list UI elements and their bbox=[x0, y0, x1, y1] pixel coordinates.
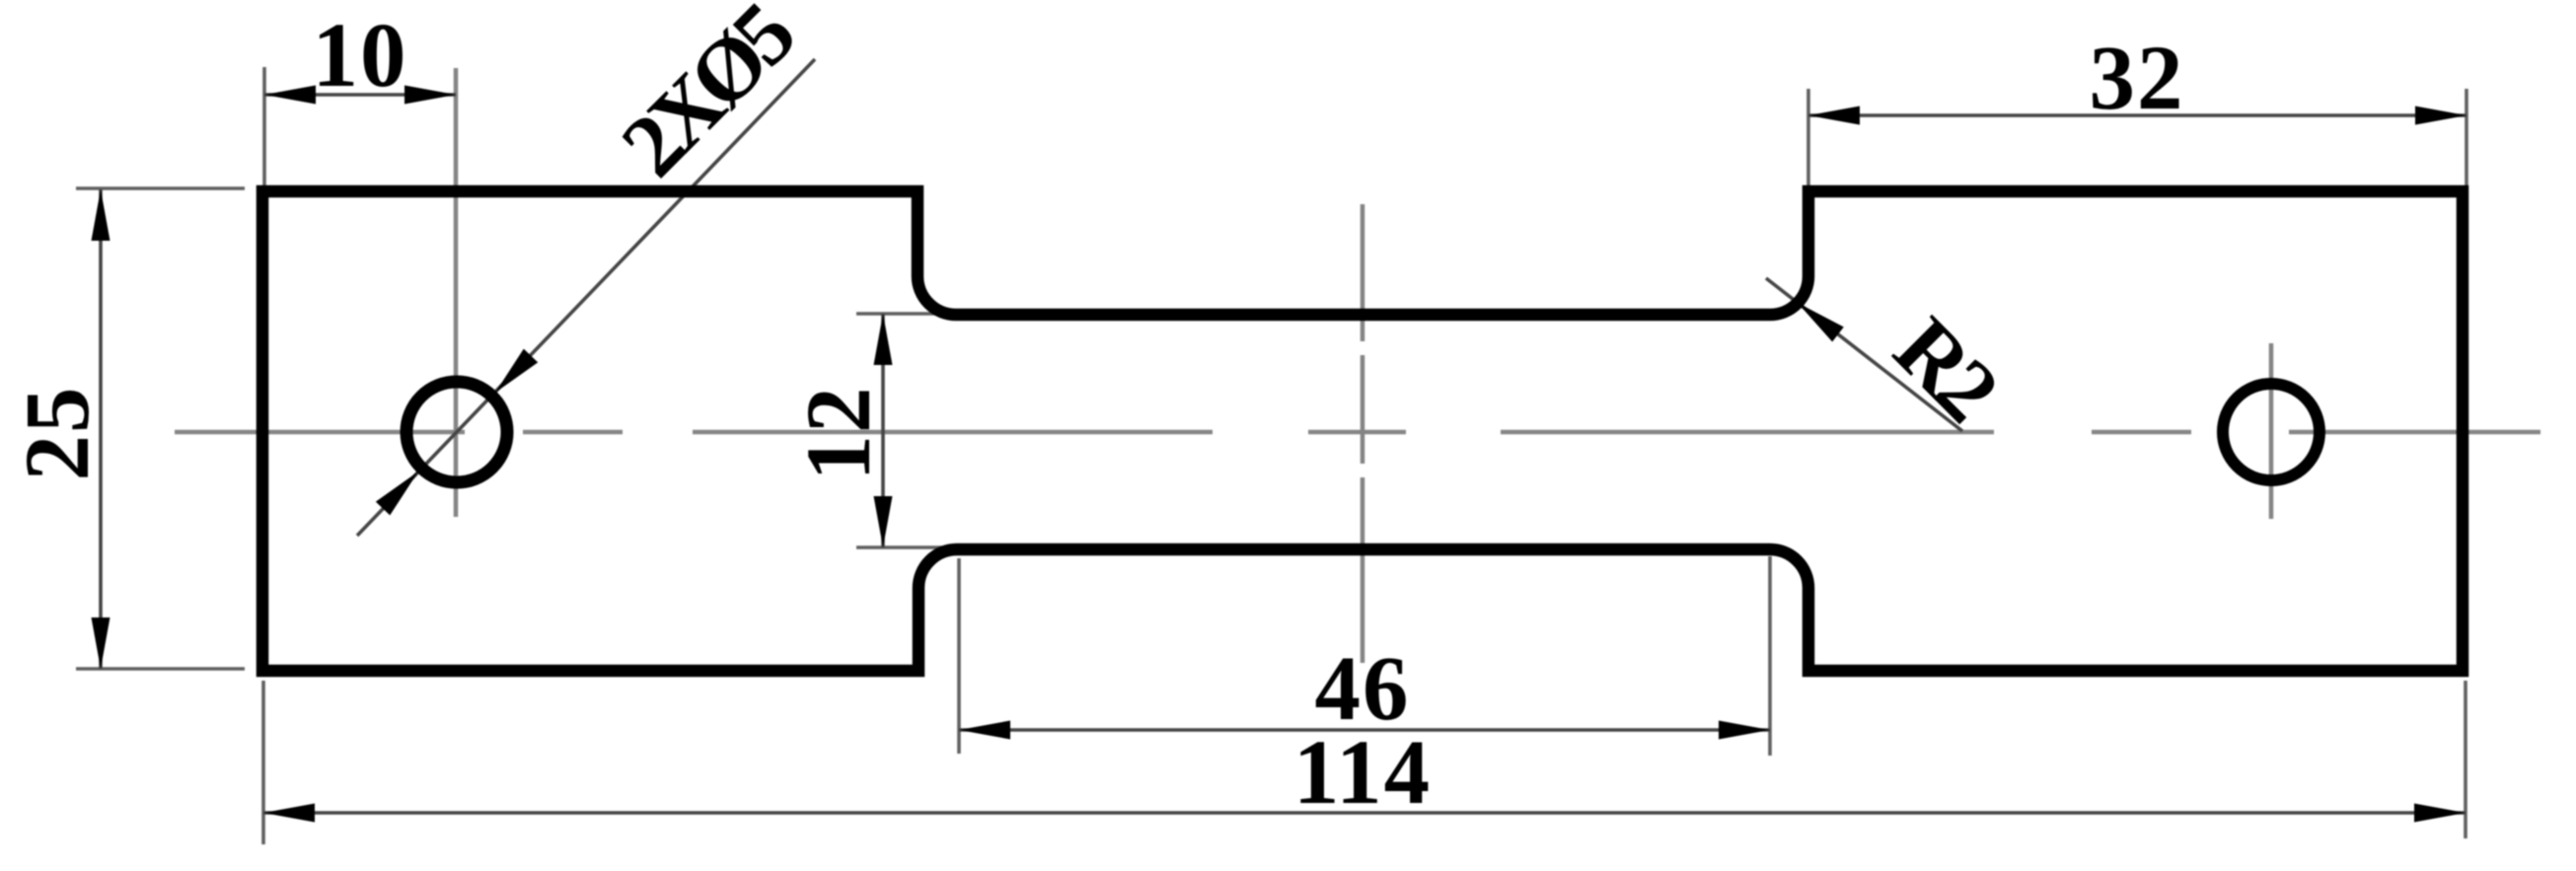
arrow 25 top bbox=[92, 189, 110, 241]
arrow 25 bottom bbox=[92, 617, 110, 669]
arrow 114 left bbox=[263, 804, 315, 823]
svg-text:114: 114 bbox=[1293, 722, 1432, 824]
ext: 25 top bbox=[76, 186, 245, 190]
arrow diameter leader upper (points at left hole) bbox=[495, 349, 538, 393]
dim line 10 bbox=[264, 93, 456, 97]
arrow 10 right bbox=[405, 86, 456, 105]
leader R2 bbox=[1766, 278, 1962, 431]
ext: 46 right bbox=[1768, 556, 1772, 756]
arrowheads bbox=[92, 86, 2467, 823]
arrow 46 right bbox=[1719, 721, 1770, 740]
svg-text:10: 10 bbox=[313, 5, 408, 107]
dim line 114 bbox=[263, 811, 2466, 815]
arrow 32 left bbox=[1808, 107, 1860, 125]
vertical centerline at part middle bbox=[1361, 204, 1365, 663]
svg-text:32: 32 bbox=[2090, 28, 2185, 129]
leader 2XØ5 (diameter line through left hole) bbox=[357, 59, 815, 536]
part outline (dog-bone specimen) bbox=[262, 191, 2463, 671]
ext: 12 top bbox=[856, 312, 956, 316]
dimension lines (thin dark) bbox=[101, 59, 2466, 813]
arrow 114 right bbox=[2414, 804, 2466, 823]
left hole (Ø5) bbox=[406, 382, 507, 482]
ext: 10 left (top-left corner up) bbox=[262, 67, 266, 191]
ext: 25 bottom bbox=[76, 667, 245, 671]
arrow 12 top bbox=[874, 314, 893, 365]
arrow 10 left bbox=[264, 86, 316, 105]
arrow R2 (points at fillet) bbox=[1798, 303, 1844, 342]
right hole (Ø5) bbox=[2223, 384, 2319, 480]
horizontal centerline (chain line through both holes and middle) bbox=[175, 430, 2540, 435]
arrow 32 right bbox=[2415, 107, 2466, 125]
ext: 114 right bbox=[2464, 681, 2467, 838]
ext: 32 left bbox=[1806, 89, 1810, 185]
arrow 12 bottom bbox=[874, 496, 893, 547]
arrow 46 left bbox=[959, 721, 1010, 740]
dim line 12 bbox=[881, 314, 885, 547]
svg-text:25: 25 bbox=[7, 386, 109, 481]
ext: 32 right bbox=[2465, 89, 2468, 185]
svg-text:2XØ5: 2XØ5 bbox=[603, 0, 812, 195]
svg-text:12: 12 bbox=[788, 386, 890, 481]
dim line 46 bbox=[959, 728, 1770, 732]
ext: 12 bottom bbox=[856, 545, 956, 549]
ext: 114 left bbox=[261, 681, 265, 844]
dim line 25 bbox=[99, 189, 103, 669]
dim line 32 bbox=[1808, 113, 2466, 117]
arrow diameter leader lower (points at left hole) bbox=[376, 472, 418, 515]
vertical centerline of right hole bbox=[2269, 343, 2274, 519]
svg-text:R2: R2 bbox=[1876, 299, 2015, 438]
vertical centerline of left hole (also extension for 10 dim) bbox=[454, 68, 459, 517]
ext: 46 left bbox=[957, 558, 961, 754]
